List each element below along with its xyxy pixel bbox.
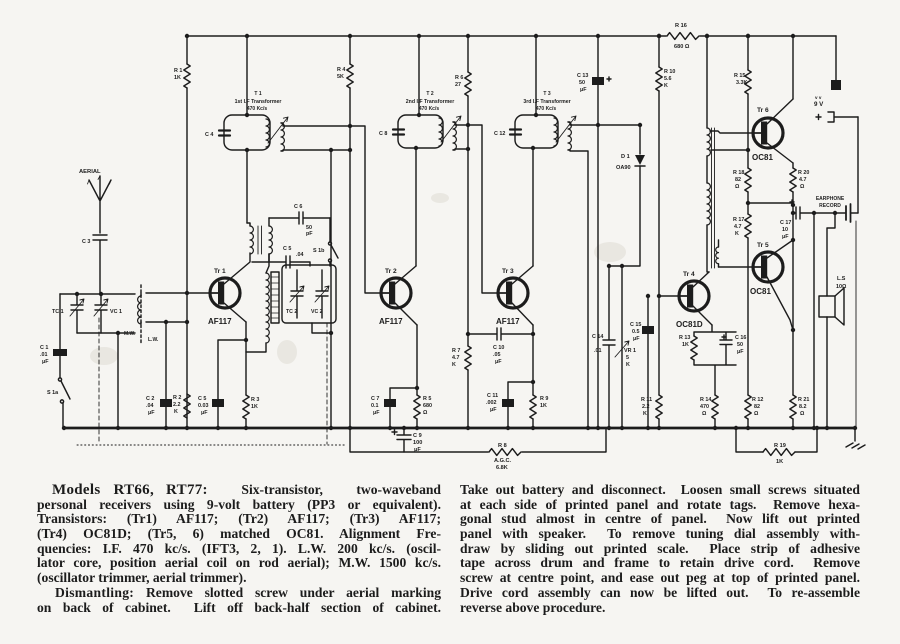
svg-text:100: 100 — [413, 440, 422, 446]
svg-text:μF: μF — [580, 87, 587, 93]
IF3 secondary top wire to detector — [568, 122, 640, 125]
resistor R16 680 ohm (horizontal, in top rail) — [667, 33, 699, 40]
transistor Tr2 AF117 — [381, 278, 411, 308]
svg-text:S 1a: S 1a — [47, 390, 59, 396]
Tr5 collector wire — [767, 277, 793, 330]
svg-text:470 Kc/s: 470 Kc/s — [536, 106, 557, 112]
1st IF transformer primary box — [246, 36, 248, 115]
svg-text:Ω: Ω — [800, 184, 805, 190]
resistor R21 8.2 — [790, 395, 796, 419]
transistor Tr1 AF117 — [210, 278, 240, 308]
svg-text:VR 1: VR 1 — [624, 348, 636, 354]
svg-text:v v: v v — [815, 95, 822, 100]
svg-text:K: K — [174, 409, 178, 415]
svg-text:.04: .04 — [146, 403, 154, 409]
gang dashed link (right, to VC2) — [326, 323, 328, 444]
resistor R19 1K — [763, 449, 795, 456]
svg-text:Tr 5: Tr 5 — [757, 242, 769, 249]
gang dashed link (left) — [98, 318, 100, 444]
capacitor C4 (inside IF1) — [219, 131, 230, 136]
earphone record line — [793, 207, 845, 219]
svg-text:μF: μF — [782, 234, 789, 240]
capacitor C3 (aerial coupling) — [93, 235, 107, 294]
svg-text:1st I.F Transformer: 1st I.F Transformer — [235, 99, 282, 105]
resistor R14 470 — [712, 395, 718, 419]
resistor R6 27 — [465, 72, 471, 96]
oscillator secondary winding — [269, 226, 272, 254]
svg-text:0.1: 0.1 — [371, 403, 379, 409]
IF1 secondary return to ground — [330, 150, 332, 428]
emitter network R13 / C16 — [694, 325, 736, 395]
svg-text:50: 50 — [737, 342, 743, 348]
trimmer TC1 — [71, 294, 83, 333]
Tr5 emitter wire — [767, 240, 793, 258]
svg-text:Tr 3: Tr 3 — [502, 268, 514, 275]
svg-text:1K: 1K — [251, 404, 258, 410]
svg-text:S 1b: S 1b — [313, 248, 325, 254]
ground rail — [64, 427, 855, 430]
bias chain x=748 — [747, 36, 749, 70]
capacitor C6 50pF — [269, 212, 330, 224]
svg-text:R 20: R 20 — [798, 170, 809, 176]
svg-text:μF: μF — [42, 359, 49, 365]
svg-text:Ω: Ω — [423, 410, 428, 416]
IF2 secondary bottom wire — [453, 149, 468, 150]
svg-text:R 16: R 16 — [675, 23, 687, 29]
svg-text:R 8: R 8 — [498, 443, 507, 449]
ground symbol — [846, 428, 865, 449]
svg-text:C 6: C 6 — [294, 204, 302, 210]
resistor R8 6.8K (AGC) — [489, 449, 521, 456]
coupling arrow — [268, 117, 288, 143]
2nd IF transformer primary box — [418, 36, 420, 115]
coupling capacitor C15 (to Tr4 base) — [647, 296, 649, 428]
tap to Tr6 base — [710, 131, 753, 133]
svg-text:K: K — [735, 231, 739, 237]
variable capacitor VC2 — [316, 270, 328, 318]
svg-text:VC 2: VC 2 — [311, 309, 323, 315]
svg-text:R 5: R 5 — [423, 396, 431, 402]
svg-text:3rd I.F Transformer: 3rd I.F Transformer — [523, 99, 570, 105]
Tr1 emitter wire — [224, 303, 246, 322]
Tr3 emitter wire — [512, 303, 533, 325]
svg-text:μF: μF — [490, 407, 497, 413]
driver transformer secondary winding — [707, 183, 710, 211]
svg-text:OC81: OC81 — [750, 287, 771, 296]
emitter bypass capacitor — [218, 340, 246, 428]
svg-text:Ω: Ω — [800, 411, 805, 417]
svg-text:VC 1: VC 1 — [110, 309, 122, 315]
svg-text:T 1: T 1 — [254, 91, 261, 97]
capacitor C9 100uF (decoupling, below rail) — [397, 428, 411, 452]
battery positive drop and terminal — [835, 36, 837, 80]
svg-text:C 8: C 8 — [379, 131, 387, 137]
svg-text:82: 82 — [754, 404, 760, 410]
svg-text:C 1: C 1 — [40, 345, 48, 351]
svg-text:OC81: OC81 — [752, 153, 773, 162]
svg-text:.05: .05 — [493, 352, 501, 358]
IF2 secondary winding — [453, 122, 456, 150]
oscillator coil former (slug) — [271, 272, 279, 323]
svg-text:4.7: 4.7 — [452, 355, 460, 361]
svg-text:5: 5 — [626, 355, 629, 361]
svg-text:C 7: C 7 — [371, 396, 379, 402]
transistor Tr6 OC81 — [753, 118, 783, 148]
top supply rail — [187, 35, 836, 37]
supply line x=350 with R4 — [349, 36, 351, 64]
IF2 secondary top wire to Tr3 base — [453, 122, 499, 293]
svg-text:9 V: 9 V — [814, 101, 824, 108]
svg-text:R 3: R 3 — [251, 397, 259, 403]
resistor R11 2.2K — [656, 395, 662, 419]
supply line x=468 with R6 — [467, 36, 469, 72]
svg-text:L.S: L.S — [837, 276, 846, 282]
svg-text:1K: 1K — [682, 342, 689, 348]
svg-text:R 9: R 9 — [540, 396, 548, 402]
IF3 secondary bottom wire — [568, 150, 588, 428]
IF1 secondary winding — [281, 123, 284, 151]
svg-text:EARPHONE: EARPHONE — [816, 196, 845, 202]
svg-text:R 1: R 1 — [174, 68, 182, 74]
svg-text:82: 82 — [735, 177, 741, 183]
earphone jack — [846, 204, 851, 222]
svg-text:T 2: T 2 — [426, 91, 433, 97]
resistor R15 — [745, 70, 751, 94]
svg-text:K: K — [643, 411, 647, 417]
svg-text:R 13: R 13 — [679, 335, 690, 341]
emitter resistor R5 680 — [414, 395, 420, 419]
svg-text:K: K — [664, 83, 668, 89]
resistor R20 4.7 — [790, 168, 796, 192]
trimmer TC2 — [291, 270, 303, 318]
tap to Tr5 base — [719, 266, 754, 268]
svg-text:4.7: 4.7 — [799, 177, 807, 183]
main output line x=793 — [792, 163, 794, 168]
svg-text:Tr 1: Tr 1 — [214, 268, 226, 275]
svg-text:R 14: R 14 — [700, 397, 711, 403]
svg-text:R 12: R 12 — [752, 397, 763, 403]
IF3 primary winding — [554, 118, 557, 146]
svg-text:R 15: R 15 — [734, 73, 745, 79]
svg-text:Ω: Ω — [735, 184, 740, 190]
svg-text:RECORD: RECORD — [819, 203, 841, 209]
svg-text:pF: pF — [306, 231, 313, 237]
top rail junction dots — [657, 34, 661, 38]
svg-text:OA90: OA90 — [616, 165, 631, 171]
svg-text:L.W.: L.W. — [148, 337, 159, 343]
Tr4 emitter wire — [693, 306, 712, 325]
Tr6 collector wire to rail — [767, 99, 793, 124]
switch S1a — [59, 356, 61, 377]
svg-text:470 Kc/s: 470 Kc/s — [247, 106, 268, 112]
transistor Tr3 AF117 — [498, 278, 528, 308]
switch S1b — [329, 218, 331, 242]
scan smudges (paper artifacts) — [90, 347, 118, 365]
svg-text:R 6: R 6 — [455, 75, 463, 81]
coupling arrow — [556, 116, 576, 142]
svg-text:10Ω: 10Ω — [836, 284, 847, 290]
emitter resistor R9 1K — [530, 395, 536, 419]
svg-text:μF: μF — [148, 410, 155, 416]
driver transformer lower winding (to Tr5) — [716, 247, 719, 264]
svg-text:5.6: 5.6 — [664, 76, 672, 82]
svg-text:Tr 2: Tr 2 — [385, 268, 397, 275]
svg-text:0.03: 0.03 — [198, 403, 209, 409]
svg-text:50: 50 — [579, 80, 585, 86]
svg-text:A.G.C.: A.G.C. — [494, 458, 512, 464]
svg-text:M.W.: M.W. — [124, 331, 136, 337]
svg-text:C 15: C 15 — [630, 322, 641, 328]
capacitor C1 .01uF — [59, 294, 61, 349]
loudspeaker L.S 10ohm — [819, 296, 835, 317]
svg-text:TC 1: TC 1 — [52, 309, 64, 315]
svg-text:Tr 4: Tr 4 — [683, 271, 695, 278]
capacitor C5 (osc coupling) — [252, 256, 310, 268]
oscillator core — [258, 226, 262, 254]
emitter bypass C7 0.1uF — [390, 388, 417, 428]
svg-text:μF: μF — [201, 410, 208, 416]
svg-text:μF: μF — [414, 447, 421, 453]
svg-text:2.2: 2.2 — [173, 402, 181, 408]
capacitor C13 (black) — [592, 77, 604, 85]
svg-text:470: 470 — [700, 404, 709, 410]
svg-text:R 19: R 19 — [774, 443, 786, 449]
svg-text:1K: 1K — [540, 403, 547, 409]
svg-text:10: 10 — [782, 227, 788, 233]
Tr2 collector wire — [395, 266, 416, 284]
coupling arrow — [441, 116, 461, 142]
svg-text:OC81D: OC81D — [676, 320, 703, 329]
IF1 secondary bottom wire — [281, 150, 350, 151]
svg-text:T 3: T 3 — [543, 91, 550, 97]
AGC feedback loop (left, below rail) — [350, 428, 606, 452]
svg-text:μF: μF — [373, 410, 380, 416]
Tr6 emitter wire — [767, 143, 793, 163]
svg-text:AF117: AF117 — [208, 317, 232, 326]
svg-text:27: 27 — [455, 82, 461, 88]
svg-text:R 11: R 11 — [641, 397, 652, 403]
svg-text:C 17: C 17 — [780, 220, 791, 226]
svg-text:470 Kc/s: 470 Kc/s — [419, 106, 440, 112]
svg-text:Ω: Ω — [702, 411, 707, 417]
svg-text:Tr 6: Tr 6 — [757, 107, 769, 114]
IF1 primary winding — [266, 119, 269, 147]
svg-text:680: 680 — [423, 403, 432, 409]
resistor R7 4.7K — [465, 346, 471, 370]
aerial cell bottom wire — [77, 333, 135, 428]
svg-text:.01: .01 — [594, 348, 602, 354]
svg-text:R 10: R 10 — [664, 69, 675, 75]
svg-text:.04: .04 — [296, 252, 304, 258]
bias line x=659 with R10 — [658, 36, 660, 67]
svg-text:C 9: C 9 — [413, 433, 422, 439]
AGC decoupling line x=598 with C13 — [597, 36, 599, 428]
Tr4 base wire — [659, 295, 680, 297]
Tr2 emitter wire — [395, 303, 417, 325]
bias line x=187 from rail — [186, 36, 188, 64]
capacitor C8 (inside IF2) — [393, 130, 404, 135]
9V battery connector — [814, 95, 824, 108]
driver transformer T4 — [706, 36, 708, 128]
svg-text:C 5: C 5 — [198, 396, 206, 402]
svg-text:Ω: Ω — [754, 411, 759, 417]
node: Tr1 base line — [146, 292, 211, 294]
svg-text:.01: .01 — [40, 352, 48, 358]
resistor R12 — [745, 395, 751, 419]
svg-text:C 14: C 14 — [592, 334, 603, 340]
IF2 primary winding — [439, 118, 442, 146]
svg-text:R 18: R 18 — [733, 170, 744, 176]
svg-text:6.8K: 6.8K — [496, 465, 508, 471]
capacitor C2 .04uF — [165, 322, 167, 399]
aerial tuned circuit top line — [60, 293, 135, 295]
Tr1 collector wire to oscillator coil — [224, 253, 250, 284]
bias tie from R18/R17 junction — [748, 202, 793, 204]
svg-text:μF: μF — [495, 359, 502, 365]
1st IF transformer label — [235, 91, 282, 112]
svg-text:C 16: C 16 — [735, 335, 746, 341]
svg-text:D 1: D 1 — [621, 154, 630, 160]
resistor R10 5.6K — [656, 67, 662, 91]
svg-text:C 12: C 12 — [494, 131, 505, 137]
svg-text:TC 2: TC 2 — [286, 309, 297, 315]
volume control VR1 5K — [621, 266, 623, 428]
oscillator coil L20 winding — [266, 273, 269, 343]
svg-text:C 5: C 5 — [283, 246, 291, 252]
svg-text:2.2: 2.2 — [642, 404, 650, 410]
jack sleeve return wire — [855, 221, 857, 428]
wire IF1 bottom to oscillator — [246, 150, 248, 223]
emitter resistor R3 — [245, 322, 247, 395]
svg-text:C 2: C 2 — [146, 396, 154, 402]
svg-text:.002: .002 — [486, 400, 497, 406]
capacitor C12 (inside IF3) — [510, 130, 521, 135]
transistor Tr5 OC81 — [753, 252, 783, 282]
svg-text:5K: 5K — [337, 74, 344, 80]
svg-text:4.7: 4.7 — [734, 224, 742, 230]
svg-text:K: K — [452, 362, 456, 368]
oscillator trimmer cell box — [282, 265, 336, 323]
svg-text:R 7: R 7 — [452, 348, 460, 354]
resistor R17 4.7K — [745, 214, 751, 238]
transistor Tr4 OC81D — [679, 281, 709, 311]
emitter bypass C11 .002uF — [508, 382, 533, 428]
speaker feed — [813, 213, 815, 428]
IF1 secondary top wire to Tr2 base — [281, 123, 382, 293]
IF3 secondary winding — [568, 122, 571, 150]
neutralising capacitor C10 — [468, 328, 533, 340]
svg-text:1K: 1K — [776, 459, 783, 465]
resistor R1 — [184, 64, 190, 88]
svg-text:8.2: 8.2 — [799, 404, 807, 410]
svg-text:3.3K: 3.3K — [736, 80, 747, 86]
svg-text:AF117: AF117 — [496, 317, 520, 326]
cell bottom tie — [312, 323, 331, 333]
svg-text:μF: μF — [737, 349, 744, 355]
3rd IF transformer label — [523, 91, 570, 112]
oscillator transformer T: collector winding — [249, 224, 251, 226]
2nd IF transformer label — [406, 91, 454, 112]
svg-text:R 4: R 4 — [337, 67, 345, 73]
volume filter line x=609 with C14 — [603, 266, 615, 428]
svg-text:C 3: C 3 — [82, 239, 90, 245]
aerial symbol — [89, 176, 111, 233]
diode D1 OA90 — [639, 125, 641, 154]
svg-text:C 11: C 11 — [487, 393, 498, 399]
gang dotted enclosure bottom — [77, 444, 345, 446]
svg-text:K: K — [626, 362, 630, 368]
svg-text:C 13: C 13 — [577, 73, 588, 79]
svg-text:AF117: AF117 — [379, 317, 403, 326]
resistor R2 — [184, 394, 190, 418]
Tr3 collector wire — [512, 266, 533, 284]
battery wire down to jack — [857, 117, 859, 213]
svg-text:μF: μF — [633, 336, 640, 342]
svg-text:1K: 1K — [174, 75, 181, 81]
svg-text:680 Ω: 680 Ω — [674, 44, 690, 50]
svg-text:C 10: C 10 — [493, 345, 504, 351]
resistor R4 5K — [347, 64, 353, 88]
variable capacitor VC1 — [95, 294, 107, 333]
svg-text:R 17: R 17 — [733, 217, 744, 223]
Tr4 collector wire to driver transformer — [693, 272, 709, 287]
resistor R18 82 — [745, 168, 751, 192]
svg-text:AERIAL: AERIAL — [79, 169, 101, 175]
svg-text:2nd I.F Transformer: 2nd I.F Transformer — [406, 99, 454, 105]
3rd IF transformer primary box — [535, 36, 537, 115]
svg-text:R 21: R 21 — [798, 397, 809, 403]
svg-text:C 4: C 4 — [205, 132, 213, 138]
output loop with R19 (right, below rail) — [736, 428, 817, 452]
svg-text:0.5: 0.5 — [632, 329, 640, 335]
aerial rod coil L1 — [140, 285, 142, 344]
ground rail junction dots — [62, 426, 66, 430]
svg-text:R 2: R 2 — [173, 395, 181, 401]
winding return to bias divider — [711, 149, 748, 151]
